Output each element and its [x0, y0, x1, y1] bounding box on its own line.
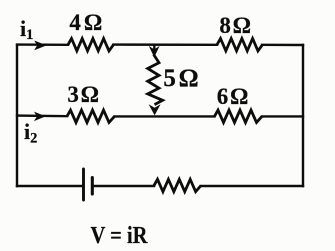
wire: top horizontal left segment [17, 43, 68, 46]
label 8 ohm [219, 13, 251, 38]
label 6 ohm [217, 84, 249, 109]
current arrow into 5 ohm (top, down) [150, 45, 158, 56]
wire: battery to bottom resistor [93, 185, 154, 187]
resistor 5 ohm (vertical centre branch) [148, 55, 163, 105]
svg-text:6: 6 [217, 84, 229, 109]
resistor 6 ohm (middle right) [215, 110, 263, 122]
wire: left vertical (node A to node D) [16, 45, 18, 186]
wire: middle horizontal left segment [17, 114, 67, 117]
svg-text:8: 8 [219, 13, 231, 38]
label 3 ohm [67, 82, 99, 107]
svg-text:5: 5 [163, 65, 176, 92]
battery (bottom branch): long plate [82, 169, 85, 200]
resistor R (bottom, unlabeled) [154, 179, 201, 191]
wire: middle horizontal centre segment (3ohm to 6ohm through node C) [115, 115, 215, 117]
svg-text:Ω: Ω [81, 82, 99, 107]
wire: middle horizontal right segment [262, 115, 303, 117]
current arrow out of 5 ohm (bottom, down) [150, 106, 159, 115]
svg-text:Ω: Ω [230, 84, 248, 109]
label 4 ohm [69, 10, 102, 35]
wire: top horizontal middle segment (4ohm to 8ohm through node B) [114, 43, 218, 46]
label 5 ohm [163, 65, 198, 92]
battery: short plate [91, 178, 94, 195]
wire: top horizontal right segment [262, 44, 303, 47]
resistor 3 ohm (middle left) [67, 110, 115, 122]
wire: bottom right segment [201, 185, 303, 187]
svg-text:Ω: Ω [179, 65, 199, 92]
resistor 8 ohm (top right) [217, 39, 263, 51]
wire: right vertical [302, 45, 304, 186]
current arrow i1 (top wire) [35, 42, 45, 50]
resistor 4 ohm (top left) [68, 39, 114, 51]
current arrow i2 (middle wire) [35, 113, 44, 120]
svg-text:V = iR: V = iR [91, 222, 148, 249]
svg-text:i1: i1 [20, 16, 33, 43]
wire: bottom left segment (to battery) [17, 185, 83, 187]
svg-text:i2: i2 [24, 119, 37, 147]
svg-text:3: 3 [67, 82, 79, 107]
svg-text:4: 4 [69, 10, 81, 35]
svg-text:Ω: Ω [233, 13, 251, 38]
svg-text:Ω: Ω [84, 10, 102, 35]
